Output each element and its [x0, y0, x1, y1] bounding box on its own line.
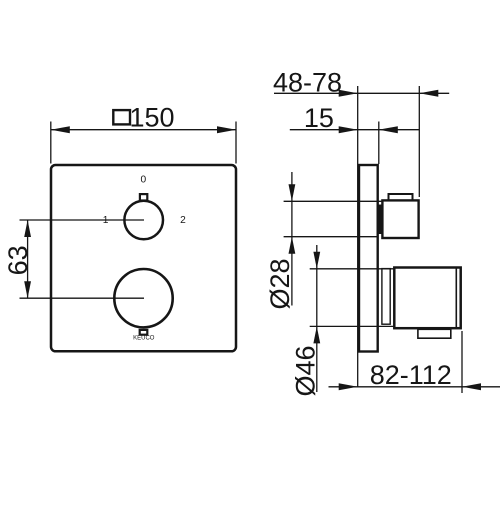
svg-text:Ø46: Ø46 [291, 345, 321, 396]
svg-text:48-78: 48-78 [273, 67, 342, 97]
svg-text:63: 63 [3, 245, 33, 275]
svg-text:KEUCO: KEUCO [133, 335, 155, 341]
svg-text:15: 15 [304, 103, 334, 133]
svg-text:82-112: 82-112 [370, 360, 452, 390]
svg-text:150: 150 [129, 102, 174, 132]
svg-text:1: 1 [103, 215, 109, 226]
svg-text:Ø28: Ø28 [265, 258, 295, 309]
svg-text:0: 0 [140, 175, 146, 186]
svg-text:2: 2 [180, 215, 186, 226]
